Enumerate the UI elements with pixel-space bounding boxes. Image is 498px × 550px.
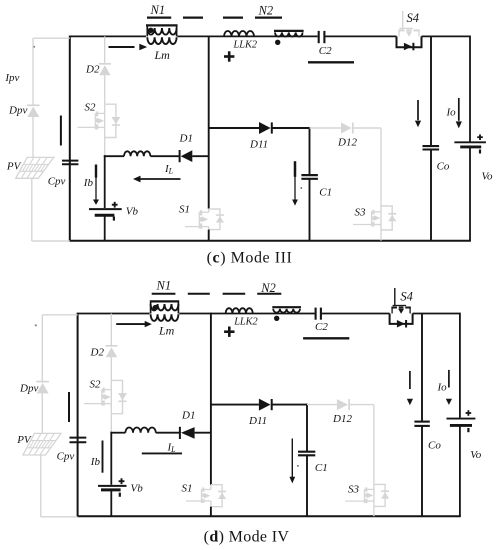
svg-text:C2: C2 [319,45,332,57]
svg-text:Ib: Ib [83,177,94,189]
wire top middle [178,35,318,37]
wire grey C1 to D12 [310,127,342,129]
wire battery vertical [104,155,106,208]
polarity minus line [308,61,354,63]
current bar Ipv [68,392,70,422]
diode D2 [106,346,118,357]
svg-text:S1: S1 [179,204,190,216]
wire top after C2 [322,313,390,315]
polarity dot N1 [153,305,159,311]
wire C1 branch lower [309,179,311,241]
wire middle vertical lower [208,230,210,241]
wire grey S2 branch upper [104,36,106,63]
node speck [33,46,35,48]
svg-text:S2: S2 [85,102,97,114]
svg-text:N1: N1 [150,3,166,17]
wire middle vertical [208,36,210,209]
svg-text:C1: C1 [315,462,328,474]
diode Dpv [27,105,40,117]
coupling dashes [147,16,282,18]
svg-text:Vo: Vo [470,449,482,461]
capacitor Cpv [62,161,78,165]
diode D2 [99,64,111,76]
wire right side lower [459,425,461,516]
svg-text:D11: D11 [248,415,267,427]
svg-text:(d) Mode IV: (d) Mode IV [204,529,290,546]
current arrow C1 [292,161,298,205]
battery Vb [89,202,122,221]
transformer N1 core [150,300,179,302]
wire grey S2 branch upper [110,314,112,346]
diode D12 [341,123,353,134]
transistor S3 [353,206,396,230]
wire battery vertical [110,432,112,485]
wire grey S3 upper [380,128,382,206]
svg-text:Dpv: Dpv [19,383,38,395]
svg-text:Co: Co [428,440,441,452]
solar panel PV [16,157,54,178]
svg-text:D1: D1 [181,409,195,421]
inductor LLK2 [224,31,254,36]
svg-text:LLK2: LLK2 [233,316,257,327]
polarity dot N2 [274,316,279,321]
transistor S4 diode path [390,314,413,328]
polarity plus [224,51,234,61]
wire inductor to D1 [150,155,178,157]
wire grey top connector [42,314,77,316]
wire grey D12 to S3 [349,404,374,406]
wire top after C2 [326,35,397,37]
transformer N2 core [272,306,301,308]
current arrow IL [133,176,181,183]
inductor Lm [151,314,179,321]
wire top middle [179,313,314,315]
circuit Mode III [4,3,493,266]
current arrow Io [456,98,462,128]
transformer N1 winding [147,27,176,37]
solar panel PV [23,433,61,455]
wire grey bottom connector [41,516,78,518]
diode D12 [337,399,349,410]
wire grey S2 branch mid [104,75,106,104]
wire middle vertical lower [210,507,212,517]
wire C1 branch upper [309,127,311,175]
wire top right [413,313,460,315]
battery Vb [98,478,127,497]
wire Co branch lower [430,150,432,241]
coupling dashes [152,293,282,295]
transistor S4 body [391,288,410,314]
svg-text:(c) Mode III: (c) Mode III [207,250,293,267]
wire left side [77,313,79,517]
svg-text:S2: S2 [90,379,102,391]
wire grey S3 upper [373,405,375,485]
inductor LLK2 [226,308,253,313]
wire top side [70,35,146,37]
capacitor Co [414,422,429,426]
diode D1 [180,427,195,439]
capacitor C2 [319,31,325,43]
polarity dot N2 [275,40,280,45]
transformer N1 winding [151,302,179,313]
capacitor Cpv [70,438,87,443]
transformer N1 core [146,24,178,26]
wire middle vertical [210,313,212,485]
current bar Ib [102,441,104,473]
svg-text:S4: S4 [407,11,420,25]
node speck [35,324,37,326]
svg-text:C2: C2 [315,321,328,333]
svg-text:N2: N2 [258,3,274,17]
current arrow Io [446,370,452,405]
svg-text:Lm: Lm [158,324,175,338]
wire left side [69,36,71,241]
battery Vo [447,410,476,432]
svg-text:Io: Io [437,381,448,393]
capacitor C1 [298,452,315,456]
wire grey S3 lower [380,230,382,241]
transformer N2 winding [273,309,300,313]
wire right side lower [469,147,471,241]
polarity plus [224,327,234,337]
wire Co branch upper [430,36,432,145]
wire right side [469,36,471,143]
wire grey pv lower [40,455,42,517]
wire Co branch lower [421,426,423,516]
wire C1 branch upper [306,404,308,452]
transistor S4 body [398,11,419,37]
svg-text:C1: C1 [319,187,332,199]
svg-text:Io: Io [446,107,457,119]
inductor L [124,151,150,156]
transistor S3 [345,484,389,506]
node speck C1 [300,187,302,189]
wire grey S2 branch lower [110,414,112,433]
wire node to D11 [211,404,259,406]
svg-text:Vb: Vb [126,206,139,218]
wire grey pv lower [31,178,33,241]
wire node to D11 [209,127,259,129]
transistor S2 [84,380,127,413]
wire grey pv upper [41,315,43,382]
svg-text:PV: PV [6,161,22,173]
circuit Mode IV [16,279,482,546]
capacitor C2 [316,308,321,320]
wire C1 branch lower [306,455,308,516]
wire grey D12 to S3 [353,127,381,129]
svg-text:Ipv: Ipv [4,72,19,84]
wire grey C1 to D12 [307,404,337,406]
svg-text:S3: S3 [348,484,360,496]
wire battery horizontal [110,432,125,434]
svg-text:D11: D11 [249,139,268,151]
current arrow C1 [289,439,295,484]
svg-text:D2: D2 [90,347,105,359]
wire grey top connector [33,37,70,39]
svg-text:Vo: Vo [482,170,494,182]
wire right side [459,313,461,418]
svg-text:N2: N2 [260,281,276,295]
svg-text:D1: D1 [179,132,193,144]
inductor L [125,428,155,433]
svg-text:Ib: Ib [90,456,101,468]
polarity minus line [303,337,349,339]
diode Dpv [36,382,49,394]
current arrow Co [415,100,421,127]
svg-text:D12: D12 [332,413,352,425]
wire Co branch upper [421,314,423,421]
wire D11 to C1 [272,127,310,129]
transistor S4 diode path [397,36,422,50]
svg-text:S1: S1 [182,483,193,495]
current arrow Ib [93,165,99,205]
svg-text:D2: D2 [85,64,100,76]
wire battery horizontal [104,155,124,157]
svg-text:D12: D12 [337,136,357,148]
wire battery to bottom [110,490,112,516]
polarity dot N1 [148,28,153,33]
wire top right [422,35,471,37]
wire battery to bottom [104,215,106,240]
wire grey S3 lower [373,506,375,516]
transformer N2 winding [275,32,303,36]
svg-text:S3: S3 [355,207,367,219]
transistor S1 [186,485,226,507]
current bar IL [142,452,182,454]
svg-text:Lm: Lm [154,48,171,62]
transformer N2 core [274,30,304,32]
diode D1 [180,150,193,162]
svg-text:S4: S4 [400,290,413,304]
wire D1 to node [195,432,211,434]
node speck C1 [297,465,299,467]
wire grey pv mid [32,117,34,157]
svg-text:PV: PV [16,434,32,446]
transistor S2 [78,104,120,137]
svg-text:Cpv: Cpv [57,451,75,463]
transistor S1 [185,209,224,230]
wire grey S2 branch lower [104,138,106,157]
wire bottom side [69,240,471,242]
diode D11 [259,399,272,411]
svg-text:Vb: Vb [131,483,144,495]
current arrow Co [407,371,413,405]
svg-text:LLK2: LLK2 [233,40,257,51]
wire top side [78,313,150,315]
wire grey pv upper [32,38,34,105]
svg-text:N1: N1 [156,279,172,293]
capacitor C1 [301,175,318,179]
current arrow ILm [116,321,152,327]
wire bottom side [77,515,461,517]
current arrow ILm [109,44,148,50]
wire grey pv mid [41,393,43,433]
wire D11 to C1 [272,404,307,406]
svg-text:Cpv: Cpv [48,176,66,188]
svg-text:Dpv: Dpv [8,105,27,117]
current bar Ipv [60,116,62,146]
wire grey S2 branch mid [110,357,112,380]
diode D11 [259,122,272,134]
wire inductor to D1 [156,432,179,434]
capacitor Co [423,146,440,149]
wire D1 to node [192,155,208,157]
battery Vo [454,134,486,153]
svg-text:Co: Co [437,160,450,172]
wire grey bottom connector [32,240,70,242]
inductor Lm [147,37,176,44]
